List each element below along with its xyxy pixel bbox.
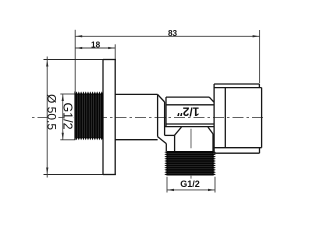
svg-text:G1/2: G1/2 [61, 102, 75, 129]
svg-text:83: 83 [168, 29, 178, 38]
svg-text:18: 18 [91, 41, 101, 50]
svg-text:1/2″: 1/2″ [177, 105, 200, 119]
svg-text:G1/2: G1/2 [180, 179, 200, 189]
svg-text:Ø 50.5: Ø 50.5 [45, 94, 59, 130]
